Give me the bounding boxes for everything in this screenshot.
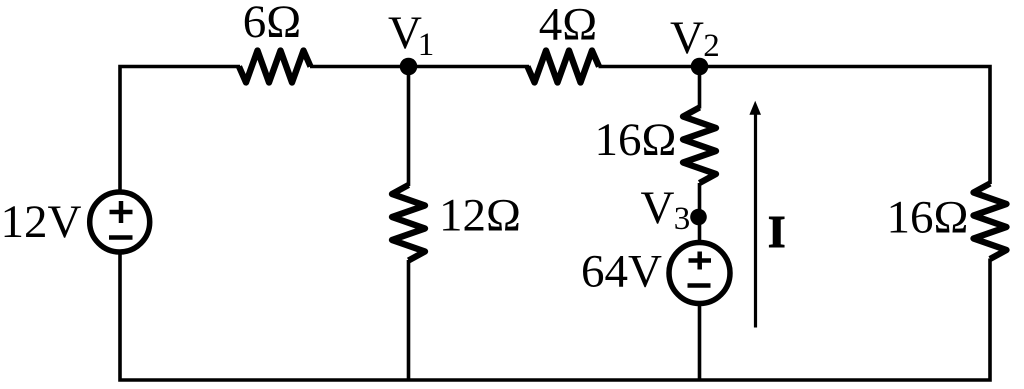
resistor 12ohm zigzag <box>392 185 425 261</box>
node V3 junction dot <box>690 209 707 226</box>
label node V2 <box>670 12 720 64</box>
svg-text:12Ω: 12Ω <box>439 190 521 242</box>
resistor 16ohm right zigzag <box>974 184 1007 260</box>
node V1 junction dot <box>400 58 418 76</box>
svg-text:6Ω: 6Ω <box>243 0 301 48</box>
wire top-middle segment V1 to 4ohm <box>310 65 529 69</box>
voltage source 64V circle <box>669 243 730 304</box>
voltage source 12V circle <box>90 192 150 252</box>
voltage source 12V plus sign <box>110 201 133 223</box>
svg-text:64V: 64V <box>581 246 662 298</box>
resistor 16ohm middle zigzag <box>683 108 716 184</box>
voltage source 64V plus sign <box>689 252 712 270</box>
current arrow I head <box>749 101 761 115</box>
wire V2 branch upper <box>698 67 702 109</box>
voltage source 64V minus sign <box>688 283 711 288</box>
wire left vertical upper with top-left corner <box>120 67 240 191</box>
wire V1 branch lower <box>407 260 411 380</box>
svg-text:V: V <box>670 12 704 64</box>
svg-text:2: 2 <box>703 28 720 64</box>
svg-text:16Ω: 16Ω <box>887 191 969 243</box>
current arrow I shaft <box>754 112 757 328</box>
wire V1 branch upper <box>407 67 411 187</box>
node V2 junction dot <box>691 58 709 76</box>
wire bottom rail with both lower corners <box>120 255 990 381</box>
svg-text:I: I <box>768 206 786 257</box>
svg-text:V: V <box>641 182 675 234</box>
resistor 6ohm zigzag <box>239 51 311 83</box>
resistor 4ohm zigzag <box>528 51 600 83</box>
wire top-right segment with top-right corner <box>599 67 991 185</box>
svg-text:4Ω: 4Ω <box>539 0 597 51</box>
label node V3 <box>641 182 691 237</box>
label node V1 <box>388 7 434 63</box>
wire V2 branch middle (to 64V source) <box>698 183 702 241</box>
voltage source 12V minus sign <box>109 235 133 240</box>
wire V2 branch lower <box>698 306 702 381</box>
svg-text:3: 3 <box>674 201 691 237</box>
svg-text:16Ω: 16Ω <box>595 114 677 166</box>
svg-text:12V: 12V <box>1 196 82 248</box>
svg-text:1: 1 <box>418 27 435 63</box>
